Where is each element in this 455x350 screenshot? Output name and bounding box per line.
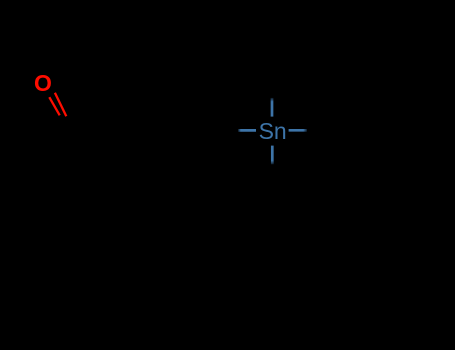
bond Sn right <box>289 129 307 132</box>
svg-text:O: O <box>34 70 52 96</box>
bond Sn up <box>271 98 274 117</box>
svg-text:Sn: Sn <box>259 118 287 144</box>
double bond C=O line 2 <box>55 93 66 116</box>
bond Sn down <box>271 146 274 165</box>
double bond C=O line 1 <box>49 97 59 115</box>
bond Sn left <box>238 129 256 132</box>
